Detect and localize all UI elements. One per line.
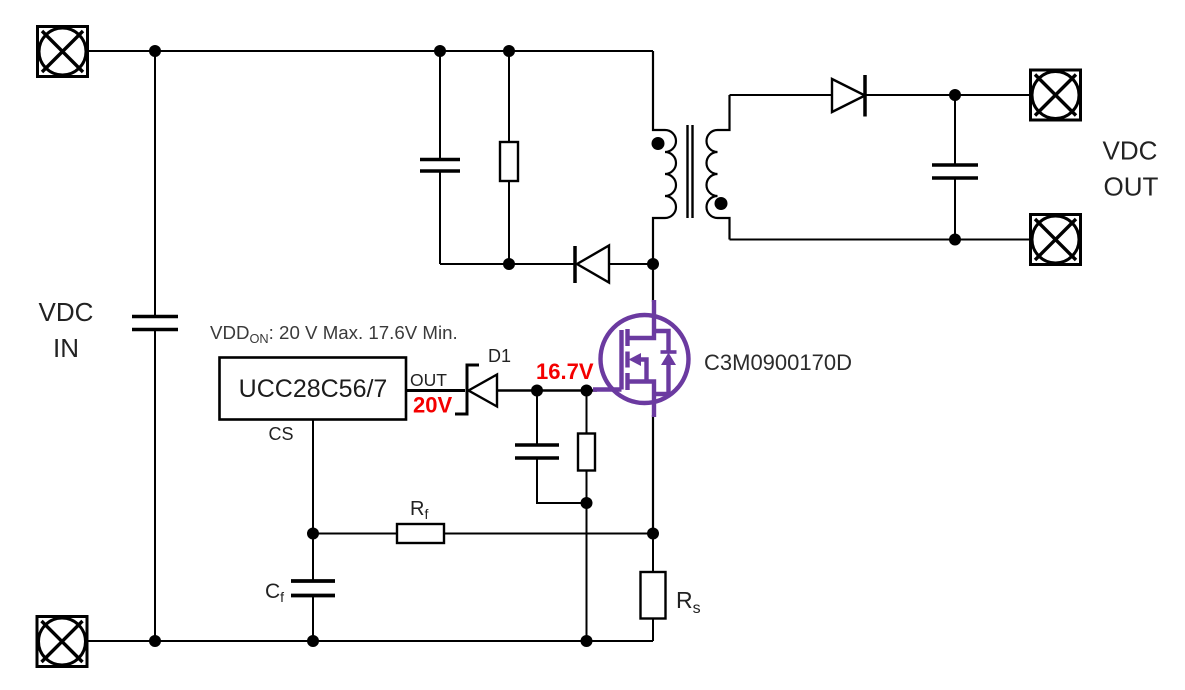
svg-text:16.7V: 16.7V <box>536 359 594 384</box>
secondary phase dot <box>715 197 728 210</box>
capacitor C gate <box>515 445 559 458</box>
wire snubber resistor branch <box>508 51 510 264</box>
op-amp U1 UCC28C56/7 box <box>220 358 407 420</box>
svg-text:VDC: VDC <box>39 297 94 327</box>
node CS / Rf junction <box>307 528 319 540</box>
diode D output (points right) <box>832 75 865 117</box>
capacitor C out <box>932 165 978 178</box>
wire snubber cap branch <box>439 51 441 264</box>
wire CS pin branch <box>312 420 314 642</box>
wire output cap branch <box>954 95 956 240</box>
svg-text:VDDON: 20 V Max. 17.6V Min.: VDDON: 20 V Max. 17.6V Min. <box>210 322 458 346</box>
terminal J3 top-right (VDC OUT +) <box>1031 70 1081 120</box>
primary phase dot <box>652 137 665 150</box>
node output cap top <box>949 89 961 101</box>
node Rf / source junction <box>647 528 659 540</box>
svg-text:VDC: VDC <box>1103 136 1158 166</box>
svg-text:OUT: OUT <box>410 370 447 390</box>
wire secondary top to output <box>730 94 1031 96</box>
node gate res junction <box>581 385 593 397</box>
capacitor Cf <box>291 581 335 596</box>
node bottom rail / Cf branch <box>307 635 319 647</box>
wire drain from clamp node <box>652 264 654 302</box>
wire gate res branch <box>586 391 588 642</box>
capacitor C snubber <box>420 160 460 172</box>
wire OUT net <box>406 389 465 392</box>
node output cap bottom <box>949 234 961 246</box>
wire input cap branch <box>154 51 156 641</box>
node bottom rail / input cap <box>149 635 161 647</box>
wire bottom rail <box>88 640 653 642</box>
resistor Rf <box>397 524 444 543</box>
node input-cap top junction <box>149 45 161 57</box>
svg-text:OUT: OUT <box>1104 172 1159 202</box>
transformer T1 primary winding <box>653 51 676 264</box>
resistor Rs <box>641 572 666 619</box>
resistor R snubber <box>500 142 518 181</box>
resistor R gate <box>578 434 595 471</box>
svg-text:UCC28C56/7: UCC28C56/7 <box>239 375 388 403</box>
node bottom rail / gate RC return <box>581 635 593 647</box>
diode D1 zener <box>455 365 497 414</box>
wire gate cap branch <box>537 391 587 504</box>
node drain / primary bottom junction <box>647 258 659 270</box>
diode D clamp (points left) <box>575 246 609 284</box>
svg-text:CS: CS <box>268 424 293 444</box>
svg-text:20V: 20V <box>413 393 452 418</box>
terminal J2 bottom-left (VDC IN -) <box>37 617 87 667</box>
node snubber bottom junction <box>503 258 515 270</box>
terminal J4 bottom-right (VDC OUT -) <box>1031 215 1081 265</box>
wire Rf net <box>313 533 653 535</box>
node gate RC bottom junction <box>581 497 593 509</box>
svg-text:D1: D1 <box>488 346 511 366</box>
wire top rail <box>88 50 653 52</box>
node gate cap junction <box>531 385 543 397</box>
svg-text:C3M0900170D: C3M0900170D <box>704 350 852 375</box>
transistor Q1 C3M0900170D (SiC MOSFET) <box>593 300 689 417</box>
terminal J1 top-left (VDC IN +) <box>38 27 88 77</box>
wire source to Rf node <box>652 415 654 534</box>
svg-text:IN: IN <box>53 333 79 363</box>
transformer T1 secondary winding <box>707 95 730 240</box>
capacitor Cin <box>132 317 178 330</box>
node snubber-cap top junction <box>434 45 446 57</box>
wire secondary bottom to output <box>730 239 1031 241</box>
node snubber-res top junction <box>503 45 515 57</box>
wire source to Rs <box>652 534 654 573</box>
transformer core <box>688 125 693 218</box>
wire snubber bottom / clamp diode net <box>440 263 653 265</box>
wire Rs to bottom rail <box>652 619 654 642</box>
